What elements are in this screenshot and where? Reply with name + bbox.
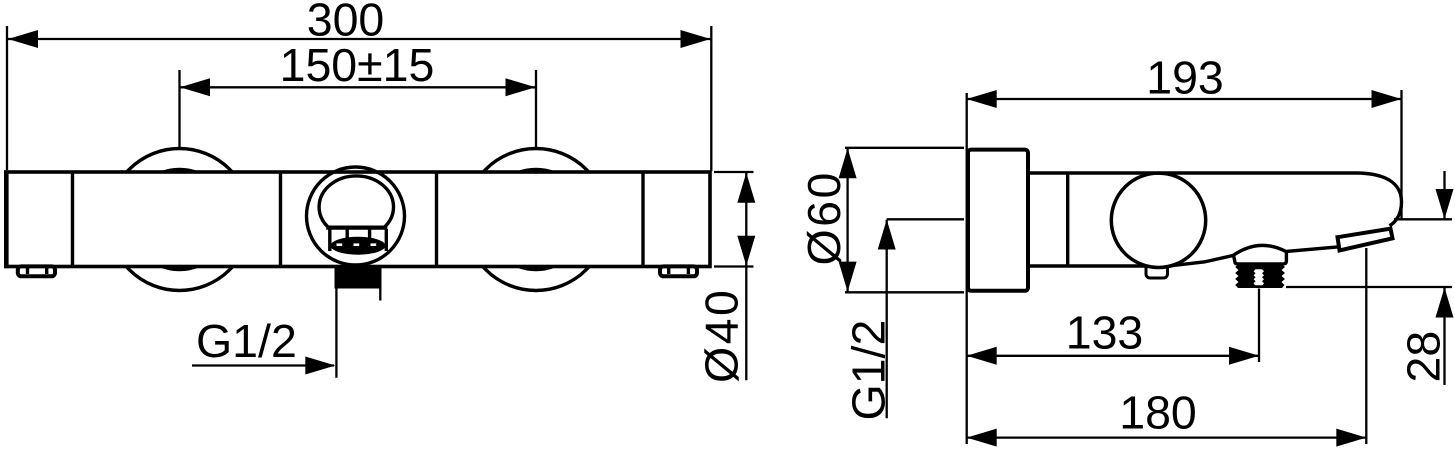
dim D60 ext line top — [845, 147, 964, 149]
dim 180 arrow right — [1336, 429, 1366, 447]
central knob outer circle — [307, 167, 405, 265]
dim 150 line — [180, 86, 536, 88]
dim 133 arrow right — [1229, 347, 1259, 365]
spout lip — [1338, 229, 1393, 251]
dim 300 arrow right — [681, 30, 711, 48]
dim 28 arrow up — [1436, 288, 1454, 318]
leader G12 side arrow — [878, 220, 896, 250]
knob base tick left — [346, 228, 349, 238]
dim 28 ref line bottom — [1286, 286, 1452, 288]
body divider right cap — [641, 172, 644, 267]
dim 150 arrow right — [506, 78, 536, 96]
handle tab — [1146, 264, 1168, 278]
tube bottom line left segment — [1028, 264, 1147, 267]
dim 180 line — [967, 436, 1366, 438]
knob base bar — [326, 226, 387, 230]
dim 150 ext line left — [178, 70, 180, 148]
shared ext line left — [966, 93, 968, 444]
dim 28 arrow down — [1436, 189, 1454, 219]
outlet stub line — [379, 289, 381, 301]
svg-text:180: 180 — [1119, 387, 1197, 439]
outlet nipple black — [335, 266, 382, 289]
dim 193 arrow right — [1372, 90, 1402, 108]
svg-text:Ø60: Ø60 — [798, 170, 850, 265]
leader G12 arrow — [305, 357, 335, 375]
dim 180 ext line right — [1365, 248, 1367, 444]
aerator white dash 2 — [354, 243, 360, 246]
dim 133 ext line right — [1258, 289, 1260, 363]
dim D40 ext line top — [714, 171, 754, 173]
leader G12 line — [192, 364, 334, 366]
tube divider — [1066, 173, 1069, 266]
dim 150 ext line right — [535, 70, 537, 150]
foot left — [18, 266, 55, 276]
knob base tick right — [368, 228, 371, 238]
dim 28 ref line top — [1394, 218, 1452, 220]
dim 300 line — [8, 38, 711, 40]
dim 300 arrow left — [8, 30, 38, 48]
wall escutcheon plate — [968, 150, 1028, 291]
body left edge thick — [4, 170, 9, 268]
aerator ellipse — [331, 237, 386, 255]
dim 133 line — [967, 355, 1259, 357]
body divider left cap — [71, 172, 74, 267]
nipple slot white — [1254, 269, 1264, 285]
svg-text:Ø40: Ø40 — [696, 288, 748, 383]
outlet side left — [328, 229, 331, 251]
spout underside — [1170, 245, 1339, 265]
dim D60 arrow up — [839, 148, 857, 178]
foot right — [660, 266, 697, 276]
dim 150 arrow left — [180, 78, 210, 96]
dim 193 arrow left — [967, 90, 997, 108]
outlet boss — [1234, 251, 1287, 264]
dim D60 ext line bottom — [845, 291, 964, 293]
dim D40 arrow down — [737, 236, 755, 266]
escutcheon circle right outer — [465, 149, 607, 291]
dim 193 ext line right — [1400, 90, 1402, 219]
escutcheon circle right inner — [486, 170, 586, 270]
leader G12 vertical line — [335, 289, 337, 378]
dim 28 stub top — [1443, 171, 1445, 219]
leader G12 side vertical — [886, 220, 888, 418]
mixer body bar — [6, 172, 710, 267]
svg-text:150±15: 150±15 — [280, 39, 435, 91]
dim D40 ext line bottom — [714, 265, 754, 267]
svg-text:G1/2: G1/2 — [196, 315, 297, 367]
threaded nipple — [1235, 264, 1285, 288]
dim 300 ext line right — [710, 26, 712, 171]
svg-text:193: 193 — [1146, 52, 1224, 104]
body divider mid-right — [435, 172, 438, 267]
svg-text:G1/2: G1/2 — [843, 320, 895, 421]
dim 180 arrow left — [967, 429, 997, 447]
svg-text:133: 133 — [1066, 307, 1144, 359]
dim 133 arrow left — [967, 347, 997, 365]
dim D40 arrow up — [737, 173, 755, 203]
dim D60 line — [846, 148, 848, 291]
knob balloon — [319, 176, 393, 228]
dim 28 stub bottom — [1443, 288, 1445, 386]
body divider mid-left — [279, 172, 282, 267]
dim 300 ext line left — [6, 26, 8, 170]
tube top line and spout nose — [1029, 173, 1402, 226]
thermostat knob circle — [1111, 173, 1205, 267]
outlet side right — [385, 229, 388, 251]
escutcheon circle left inner — [130, 170, 230, 270]
dim D40 line — [745, 173, 747, 381]
aerator white dash 3 — [371, 243, 377, 246]
escutcheon circle left outer — [109, 149, 251, 291]
dim D60 arrow down — [839, 262, 857, 292]
dim 193 line — [967, 98, 1401, 100]
svg-text:28: 28 — [1398, 331, 1450, 383]
aerator white dash 1 — [337, 243, 343, 246]
leader G12 side ref line — [887, 218, 964, 220]
